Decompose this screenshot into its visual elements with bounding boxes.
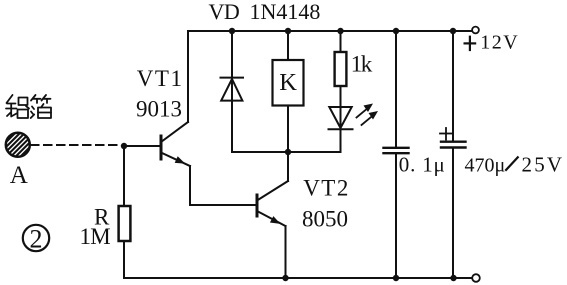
svg-text:12V: 12V [480, 32, 519, 54]
svg-text:VT1: VT1 [137, 66, 184, 91]
label +12V (plus drawn, grader-safe) [464, 36, 477, 52]
resistor 1k (box) [335, 31, 347, 86]
svg-text:VD: VD [209, 0, 240, 24]
svg-text:A: A [10, 162, 28, 189]
terminal bottom output (open circle) [472, 274, 480, 282]
capacitor C1 0.1u [384, 31, 409, 278]
svg-text:2: 2 [30, 225, 43, 254]
capacitor C2 470u/25V electrolytic [440, 31, 466, 278]
node dot bottom rail / C1 [393, 275, 399, 281]
wire dashed sensing lead [31, 144, 122, 146]
wire collector node horizontal bus [232, 151, 341, 153]
svg-text:9013: 9013 [136, 96, 182, 121]
label aluminum foil (hand-drawn CJK 铝箔) [6, 95, 51, 118]
svg-text:K: K [279, 69, 297, 96]
node dot collector bus [285, 149, 291, 155]
node dot top rail / C1 [393, 28, 399, 34]
wire VT1 emitter to VT2 base [190, 166, 255, 205]
svg-text:1k: 1k [351, 52, 373, 77]
wire VT2 collector up to node [287, 152, 289, 181]
wire top +12V supply rail [188, 30, 472, 32]
diode VD 1N4148 [221, 31, 244, 152]
svg-text:1M: 1M [80, 224, 111, 249]
LED indicator [329, 86, 353, 152]
node dot bottom rail / C2 [450, 275, 456, 281]
node dot top rail / C2 [450, 28, 456, 34]
wire resistor R bottom to rail [123, 241, 125, 278]
slash of 470u/25V (drawn, grader-safe) [505, 157, 518, 171]
transistor VT2 8050 (NPN) [257, 181, 288, 226]
terminal top +12V (open circle) [472, 27, 479, 34]
wire VT2 emitter down to bottom rail [285, 226, 287, 278]
transistor VT1 9013 (NPN) [161, 122, 190, 166]
figure number 2 circled [23, 225, 49, 251]
wire foil node down to resistor R [123, 146, 125, 206]
svg-text:VT2: VT2 [303, 176, 350, 201]
svg-text:1N4148: 1N4148 [250, 0, 321, 24]
node dot top rail / diode [229, 28, 235, 34]
node dot top rail / 1k [337, 28, 343, 34]
node dot top rail / relay [285, 28, 291, 34]
svg-text:8050: 8050 [302, 206, 348, 231]
relay K coil [273, 31, 304, 152]
svg-text:0. 1μ: 0. 1μ [399, 153, 446, 177]
wire bottom rail [124, 241, 471, 278]
electrode A aluminum foil (hatched disc) [4, 116, 32, 173]
resistor R 1M (box) [119, 206, 131, 241]
svg-text:470μ: 470μ [465, 155, 506, 177]
wire VT1 base lead [124, 145, 159, 147]
LED emission arrows [357, 104, 379, 126]
wire VT1 collector up to top rail [187, 31, 189, 122]
node dot bottom rail / VT2 emitter [282, 275, 288, 281]
svg-text:25V: 25V [522, 153, 565, 177]
node dot foil junction [121, 143, 127, 149]
